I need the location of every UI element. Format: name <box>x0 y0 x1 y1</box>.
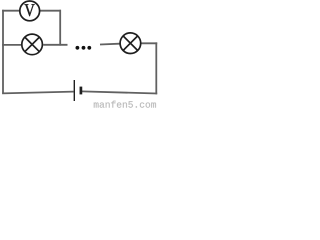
wire: middle row from gap to lamp L2 <box>100 43 120 46</box>
voltmeter V <box>20 1 40 21</box>
wire: voltmeter right lead <box>40 10 61 12</box>
wire: right vertical rail <box>155 42 157 94</box>
lamp L2 <box>120 33 141 54</box>
wire: bottom left from rail to battery positive <box>2 92 74 94</box>
wire: top from left rail to voltmeter <box>2 10 19 12</box>
wire: left vertical rail <box>2 10 4 94</box>
lamp L1 <box>22 34 43 55</box>
watermark <box>94 101 156 108</box>
wire: lamp L2 to right rail <box>141 42 157 44</box>
wire: bottom right from rail to battery negative <box>82 91 157 93</box>
wire: middle row from left rail to lamp L1 <box>2 44 21 46</box>
battery: negative plate (short thick) <box>80 87 83 95</box>
wire: middle row from lamp L1 to gap <box>43 44 67 46</box>
battery: positive plate (long) <box>73 80 75 101</box>
wire: voltmeter drop to middle row (junction) <box>59 10 61 46</box>
ellipsis: more lamps in series <box>76 46 92 50</box>
